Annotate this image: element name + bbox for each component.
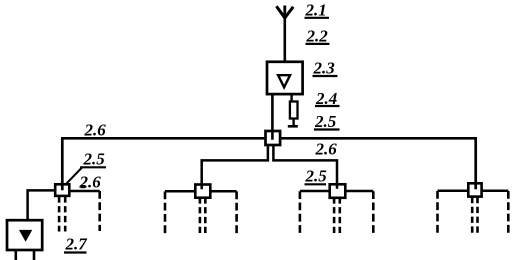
wire: dashed drop right of tap2 — [235, 191, 238, 233]
wire: splitter left lower output to tap 2 (line 2.6) — [202, 146, 268, 190]
wire: main bus left (line 2.6) with drop to tap 1 — [62, 138, 264, 190]
wire: dashed leg a below tap1 — [58, 196, 61, 231]
wire: tap4 left arm — [438, 190, 469, 193]
svg-text:2.1: 2.1 — [305, 1, 327, 20]
wire: dashed leg b below tap3 — [338, 197, 341, 234]
subscriber outlet box A1 (pos 2.7) — [7, 220, 42, 250]
wire: tap4 right arm — [482, 190, 508, 193]
wire: main bus right (line 2.5) with drop to tap 4 — [281, 138, 476, 189]
wire: dashed drop left of tap3 — [299, 191, 302, 234]
wire: dashed drop right of tap4 — [507, 191, 510, 234]
antenna W1 (pos 2.1) — [276, 6, 293, 19]
wire: dashed leg b below tap4 — [476, 197, 479, 234]
svg-text:2.2: 2.2 — [306, 27, 329, 46]
leader line for label 2.5 at tap1 — [66, 168, 82, 185]
svg-text:2.5: 2.5 — [83, 150, 106, 169]
svg-text:2.5: 2.5 — [314, 112, 337, 131]
wire: dashed leg a below tap2 — [199, 197, 202, 233]
wire: dashed drop left of tap4 — [436, 191, 439, 234]
tap box T3 (pos 2.5 right) — [330, 184, 346, 198]
svg-text:2.6: 2.6 — [84, 121, 107, 140]
splitter (pos 2.5) box — [266, 131, 281, 145]
wire: subscriber box leg b — [33, 251, 36, 260]
wire: subscriber box leg a — [15, 251, 18, 260]
svg-text:2.3: 2.3 — [313, 59, 336, 78]
wire: tap3 right arm — [346, 190, 374, 193]
wire: resistor bottom stub — [292, 119, 294, 126]
wire: dashed drop left of tap2 — [164, 191, 167, 233]
wire: dashed drop right of tap1 — [98, 191, 101, 231]
subscriber filled triangle symbol — [20, 230, 32, 240]
amplifier U1 (pos 2.3) box — [267, 62, 303, 94]
wire: splitter right lower output to tap 3 (line 2.6) — [273, 146, 337, 189]
wire: dashed leg a below tap4 — [471, 197, 474, 234]
wire: dashed leg a below tap3 — [333, 197, 336, 234]
tap box T2 — [195, 185, 210, 198]
amplifier triangle symbol — [278, 75, 290, 87]
wire: amplifier right output to resistor — [290, 95, 292, 102]
wire: dashed leg b below tap1 — [64, 196, 67, 231]
terminator bar under resistor — [288, 125, 298, 128]
tap box T4 — [468, 183, 481, 196]
svg-text:2.5: 2.5 — [305, 167, 328, 186]
svg-text:2.6: 2.6 — [315, 140, 338, 159]
wire: antenna feeder down to amplifier — [283, 16, 286, 62]
tap box T1 (pos 2.5 left) — [55, 184, 69, 196]
wire: dashed leg b below tap2 — [204, 197, 207, 233]
resistor load R1 (pos 2.4) — [290, 102, 298, 119]
wire: amplifier left output down into splitter (pin-in of 2.5) — [271, 95, 274, 140]
wire: tap1 right arm (line 2.6) — [71, 190, 100, 193]
wire: tap1 left arm to subscriber box — [28, 190, 56, 220]
svg-text:2.6: 2.6 — [79, 173, 102, 192]
wire: tap2 right arm — [211, 190, 237, 193]
antenna fork junction blob — [283, 14, 288, 19]
svg-text:2.7: 2.7 — [65, 235, 89, 254]
wire: tap3 left arm — [300, 190, 330, 193]
wire: dashed drop right of tap3 — [372, 191, 375, 234]
wire: tap2 left arm — [165, 190, 195, 193]
